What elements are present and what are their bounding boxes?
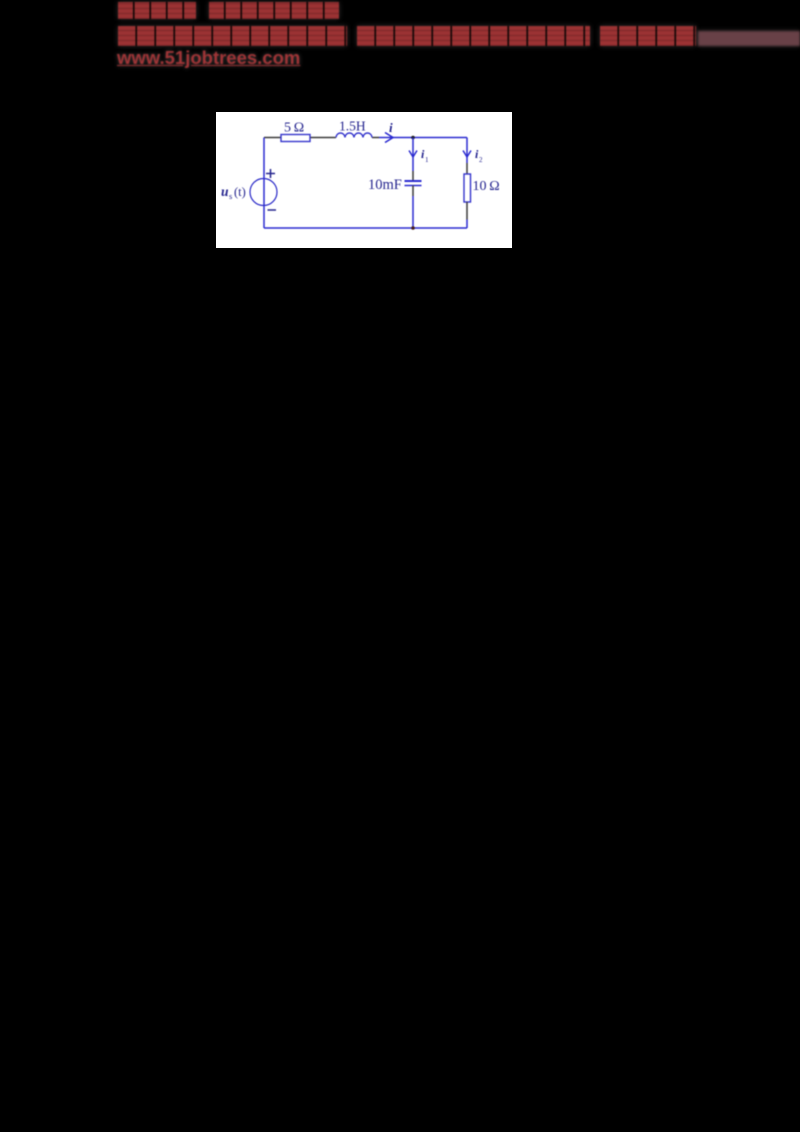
- minus sign: [268, 209, 277, 211]
- wire: bottom (blue): [264, 227, 467, 229]
- plus sign: [266, 169, 275, 178]
- svg-text:1.5H: 1.5H: [339, 119, 366, 134]
- svg-text:1: 1: [425, 156, 429, 164]
- svg-text:(t): (t): [234, 185, 246, 199]
- svg-text:10 Ω: 10 Ω: [473, 179, 500, 194]
- wire: arrow to top-right corner (blue): [392, 137, 467, 139]
- wire: right branch black above resistor: [466, 163, 468, 174]
- wire: capacitor branch upper (blue): [412, 138, 414, 172]
- wire: between resistor and inductor (black): [310, 137, 336, 139]
- wire: top-left black segment: [264, 137, 281, 139]
- voltage source us(t) circle: [250, 179, 277, 206]
- svg-text:s: s: [229, 191, 232, 201]
- svg-text:5 Ω: 5 Ω: [284, 121, 304, 136]
- wire: right branch black below resistor: [466, 202, 468, 220]
- svg-text:2: 2: [479, 156, 483, 164]
- faded red bar at right end of line 2: [698, 31, 800, 46]
- arrow i2 head: [463, 151, 471, 158]
- node dot bottom (capacitor junction): [411, 226, 415, 230]
- inductor L 1.5H coil: [336, 133, 372, 138]
- svg-text:10mF: 10mF: [368, 177, 402, 193]
- wire: right branch lower blue to corner: [466, 220, 468, 229]
- node dot top (capacitor junction): [411, 136, 415, 140]
- svg-text:u: u: [221, 184, 229, 199]
- wire: capacitor branch lower (blue): [412, 196, 414, 228]
- white circuit panel: [216, 112, 512, 248]
- wire: right branch upper (blue): [466, 138, 468, 164]
- line 3: red underlined URL: [117, 47, 300, 69]
- arrow i1 head: [409, 151, 417, 158]
- title line 2 (red CJK text, simulated): [118, 26, 347, 46]
- title line 1 (red CJK text, simulated): [118, 2, 196, 19]
- wire: capacitor lead black below plate: [412, 186, 414, 197]
- resistor R 5ohm box: [281, 135, 310, 142]
- wire: left vertical (blue): [263, 138, 265, 229]
- resistor R 10ohm box (vertical): [464, 174, 471, 202]
- capacitor C plates: [405, 180, 422, 182]
- wire: between inductor and arrow (black): [372, 137, 379, 139]
- svg-text:i: i: [389, 120, 393, 135]
- current arrow i (blue): [379, 133, 393, 143]
- wire: capacitor lead black above plate: [412, 171, 414, 181]
